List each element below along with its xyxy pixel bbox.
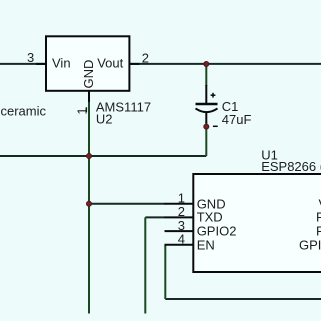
svg-text:3: 3 [27, 50, 34, 65]
svg-text:U2: U2 [96, 112, 113, 127]
svg-text:RXD: RXD [316, 224, 321, 239]
svg-text:GND: GND [81, 60, 96, 89]
svg-text:Vin: Vin [52, 56, 71, 71]
svg-text:2: 2 [142, 50, 149, 65]
svg-text:GPIO0: GPIO0 [299, 237, 321, 252]
svg-text:4: 4 [178, 231, 185, 246]
svg-text:ESP8266 (ESP-01): ESP8266 (ESP-01) [261, 159, 321, 174]
svg-text:47uF: 47uF [222, 112, 252, 127]
svg-text:1: 1 [75, 107, 90, 114]
svg-text:Vout: Vout [97, 56, 123, 71]
svg-text:ceramic: ceramic [1, 104, 47, 119]
svg-text:EN: EN [197, 237, 215, 252]
svg-text:TXD: TXD [197, 210, 223, 225]
svg-text:GPIO2: GPIO2 [197, 224, 237, 239]
svg-text:RST: RST [316, 210, 321, 225]
